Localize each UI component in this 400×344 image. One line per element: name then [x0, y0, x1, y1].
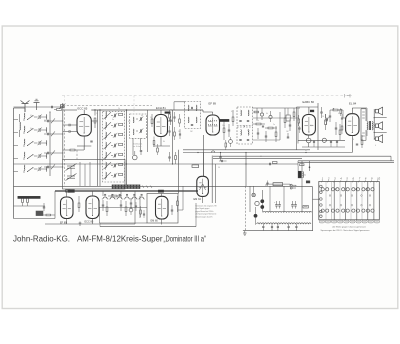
resistor R-top1 on bus	[57, 109, 62, 111]
mains transformer TR1 (dark core)	[298, 171, 301, 178]
resistor R-v4a	[325, 120, 327, 125]
coil L1 antenna input	[20, 122, 21, 130]
wire feed to top of IF1	[174, 101, 185, 103]
op tube V8 EM80 section tube	[156, 196, 169, 219]
wires in gang box	[79, 162, 81, 186]
resistor R-bl5	[125, 207, 127, 212]
svg-text:Gemessen mit umgesch. RV: Gemessen mit umgesch. RV	[195, 205, 217, 208]
svg-text:ECH 81: ECH 81	[156, 106, 166, 110]
mains plug symbol	[290, 184, 292, 186]
FM gang cluster 1 (trimmer + cap)	[47, 120, 49, 122]
ground dagger near V6	[79, 222, 81, 227]
coil pack stage 1	[105, 112, 108, 118]
svg-text:Spannungen bei 220 V~ Netz ohn: Spannungen bei 220 V~ Netz ohne Signal g…	[321, 229, 371, 232]
svg-text:EF 89: EF 89	[209, 101, 217, 105]
wire speaker out bottom	[374, 131, 387, 133]
op tube V2 ECH81	[154, 115, 167, 137]
wire dark bus y=191	[55, 190, 198, 192]
coil pack stage 4	[105, 142, 108, 148]
wire PSU risers	[269, 186, 271, 212]
resistor R-v8	[177, 201, 179, 206]
wire AVC bus y=152.5	[183, 152, 352, 154]
label box 220V	[300, 164, 304, 166]
shield box IF transformer 1 (dashed)	[185, 102, 201, 129]
V9 internal shade	[200, 184, 203, 190]
wire outer bottom run	[100, 226, 196, 228]
wire V4 top	[308, 107, 310, 115]
trimmer at gang top	[60, 105, 64, 108]
svg-text:5k: 5k	[30, 128, 32, 130]
dial lamp LP4 (filled)	[254, 214, 257, 217]
resistor R-under-V2b	[157, 148, 159, 152]
wire V6 V7 connections	[66, 191, 68, 197]
socket bottom contact circles	[321, 209, 324, 212]
capacitor C-det4	[287, 136, 289, 138]
capacitor C-det3	[289, 124, 291, 126]
op tube V4 EABC80	[302, 115, 315, 136]
svg-text:0,2: 0,2	[128, 121, 130, 123]
heater wiring scallop run 2	[257, 223, 312, 224]
resistor R-det5	[293, 112, 295, 117]
potentiometer P-bl	[129, 208, 133, 212]
IF1 primary coil	[187, 105, 190, 111]
speaker LS2	[375, 124, 378, 128]
svg-text:2k: 2k	[118, 108, 120, 110]
svg-text:5n: 5n	[297, 120, 299, 122]
op tube V5 EL84	[346, 114, 359, 136]
output transformer TR2	[367, 122, 368, 130]
resistor R-v4b	[333, 109, 338, 111]
capacitor C-top1 on bus	[51, 106, 53, 109]
wire V5 top anode	[351, 108, 353, 114]
capacitor C-v4b	[329, 115, 331, 117]
wire V1 output	[91, 120, 97, 122]
electrolytic capacitor bank 1	[275, 204, 278, 206]
shield box oscillator coils (dashed)	[130, 114, 147, 138]
svg-text:2n: 2n	[273, 124, 275, 126]
wire rail x=50	[49, 112, 51, 176]
socket top contact circles	[321, 188, 324, 191]
resistor R-v2a	[151, 119, 153, 124]
chassis boundary line right	[360, 109, 362, 141]
dial lamp LP2 (filled)	[261, 200, 264, 203]
wire bus y=158.3	[213, 157, 302, 159]
oscillator coil stage 1	[132, 117, 135, 123]
wire V2 to IF1	[168, 120, 173, 122]
svg-text:EL 84: EL 84	[349, 101, 357, 105]
wire bus y=110 middle	[91, 109, 203, 111]
FM gang cluster 2	[47, 133, 49, 135]
trimmer T-v45	[325, 114, 327, 118]
svg-text:50k: 50k	[256, 120, 259, 122]
svg-text:ohne Signal gegen: ohne Signal gegen	[195, 208, 209, 210]
enclosure box around V8	[147, 194, 178, 224]
ratio detector box	[286, 115, 290, 121]
svg-text:Abweichungen 10-15%: Abweichungen 10-15%	[195, 215, 213, 218]
wire NF run 2	[302, 146, 345, 148]
capacitor C-v5left	[341, 117, 343, 119]
wire NF run 1	[298, 139, 345, 141]
svg-text:0,5: 0,5	[338, 113, 340, 115]
wire bus y=156.2	[213, 155, 391, 157]
band switch tail marks	[142, 186, 144, 189]
capacitor C-det5	[262, 125, 264, 127]
dial lamp LP3 (filled)	[261, 205, 264, 208]
V3 grid combs	[208, 120, 210, 121]
wire dashed PSU rail	[244, 186, 246, 230]
svg-text:EABC 80: EABC 80	[303, 100, 315, 104]
resistor R-ps1 (top box)	[273, 183, 283, 186]
wire right of V8 box	[178, 150, 180, 194]
wire V3 down	[203, 135, 205, 176]
wire bus y=149.8	[183, 149, 310, 151]
capacitor C-v1b	[68, 130, 70, 133]
wire heavy bus y=186.3	[14, 185, 313, 187]
capacitor C-bl3	[120, 204, 122, 206]
coil pack stage 7	[105, 172, 108, 178]
component value labels (tiny)	[30, 108, 376, 169]
capacitor C-ps-top	[266, 182, 268, 184]
capacitor C-bl2	[102, 204, 104, 206]
op tube V9 EM34 magic eye	[197, 176, 209, 196]
label box 6.3V	[303, 206, 308, 209]
wire ferrite leads	[22, 203, 24, 207]
potentiometer P-osc	[133, 155, 138, 160]
capacitor C-bl5	[135, 205, 137, 207]
svg-text:0,1: 0,1	[305, 150, 307, 152]
label plate (dark) right of V2	[165, 112, 170, 114]
capacitor C-nf3	[336, 141, 338, 143]
band selector ladder row 2	[23, 126, 26, 131]
op tube V7 ECH81	[86, 196, 99, 219]
capacitor C-v3a	[228, 129, 230, 131]
wire runs lower mid	[102, 191, 104, 196]
svg-text:„Dominator III a“: „Dominator III a“	[164, 234, 207, 243]
winding dashes in box	[362, 111, 365, 113]
coil loop row under switch	[103, 197, 107, 199]
svg-text:3n: 3n	[112, 119, 114, 121]
coil pack stage 2	[105, 122, 108, 128]
wire bottom-left runs	[14, 218, 56, 220]
rectifier circle	[255, 201, 259, 205]
svg-text:8k: 8k	[163, 141, 165, 143]
FM gang cluster 3	[47, 152, 49, 154]
capacitor C-osc	[140, 150, 142, 152]
wire v1 bottom run	[77, 145, 91, 147]
wire mains runs	[295, 185, 297, 186]
resistor R-mid2	[179, 119, 181, 123]
ground symbol PSU	[244, 231, 246, 233]
band switch dark bar	[112, 185, 140, 189]
capacitor C-v8	[171, 209, 173, 211]
tuning gang box outline	[63, 160, 126, 190]
wire left rail	[13, 108, 15, 219]
svg-text:4: 4	[375, 145, 376, 147]
dial cord faint verticals	[64, 96, 66, 104]
resistor R-v5left	[341, 126, 343, 130]
decoupling caps under runs	[262, 224, 264, 226]
tuning linkage vertical dashes	[64, 106, 66, 186]
resistor R-mid1	[169, 114, 171, 118]
resistor R-mid4	[174, 132, 176, 136]
resistor R-hang2	[175, 156, 177, 160]
op tube V1 ECC85	[77, 115, 91, 137]
capacitor C-nf1	[313, 141, 315, 143]
shield box IF transformer 2 (dashed)	[237, 107, 253, 126]
svg-text:alle Werte gegen Chassis gemes: alle Werte gegen Chassis gemessen	[332, 225, 367, 228]
wire EM34 leads	[202, 196, 204, 203]
capacitor C-v1a	[68, 124, 70, 127]
label plate (dark) above V4 right	[310, 110, 314, 112]
svg-text:50: 50	[150, 117, 152, 119]
svg-text:EM 34: EM 34	[194, 198, 202, 201]
svg-text:gegen Masse bei 220V=: gegen Masse bei 220V=	[195, 211, 213, 213]
capacitor C-em top	[221, 160, 223, 162]
capacitor C-det2	[265, 135, 267, 137]
wire det verticals	[256, 108, 258, 120]
wire mains double bus	[298, 160, 394, 162]
label plate (dark) above V8	[158, 190, 163, 192]
svg-text:30: 30	[44, 120, 46, 122]
wire mains riser right	[312, 186, 314, 230]
svg-text:AM-FM-8/12Kreis-Super: AM-FM-8/12Kreis-Super	[77, 234, 163, 243]
component on bus (capacitor C-bus)	[269, 163, 271, 166]
resistor R-v1	[94, 118, 96, 123]
resistor R-det3	[275, 132, 277, 137]
speaker LS3	[375, 137, 378, 141]
electrolytic capacitor bank 2	[291, 204, 294, 206]
socket left column circles	[320, 185, 323, 188]
capacitor C-mid1	[173, 116, 175, 118]
band selector ladder row 5	[23, 165, 26, 170]
TR1 secondary winding	[303, 172, 304, 178]
cathode parts V5	[361, 140, 363, 145]
FM gang cluster 4	[47, 166, 49, 168]
resistor R-bl6	[140, 210, 142, 214]
svg-text:1n: 1n	[247, 130, 249, 132]
label box on bus	[192, 165, 199, 168]
lamp LP1 (crossed circle)	[252, 193, 255, 196]
socket diagram inner verticals	[333, 182, 335, 220]
variable capacitor VC1	[67, 165, 75, 167]
capacitor C-nf2	[330, 141, 332, 143]
heater wiring scallop run 1	[263, 211, 312, 212]
coil pack stage 6	[105, 162, 108, 168]
junction dot mains	[309, 166, 311, 168]
shield box AM coil pack (dashed)	[103, 111, 125, 182]
potentiometer P1 volume	[306, 138, 311, 143]
ferrite rod antenna	[18, 196, 40, 198]
coupling parts under V4	[335, 127, 337, 129]
svg-text:25: 25	[260, 156, 262, 158]
wire det cross runs	[253, 117, 298, 119]
wire osc rails	[132, 138, 134, 155]
wire V2 top	[160, 110, 162, 115]
IF1 secondary coil	[195, 105, 198, 111]
svg-text:2x: 2x	[304, 175, 306, 177]
capacitor C-hang1	[168, 156, 170, 158]
junction dot top mid	[333, 108, 334, 109]
resistor R-bl2	[78, 203, 80, 208]
resistor R-det4	[284, 118, 286, 123]
wire IF cans rail	[244, 126, 246, 128]
wire V1 anode to bus	[83, 110, 85, 115]
wire lower long run	[100, 222, 148, 224]
wire det bus y=108	[253, 107, 301, 109]
svg-text:50: 50	[218, 167, 220, 169]
dial pointer marks	[344, 94, 346, 98]
shield box IF transformer 3 (dashed)	[237, 127, 253, 144]
wire rail x=100	[99, 110, 101, 186]
tuning linkage dashed line	[63, 105, 152, 107]
resistor R-det6	[254, 111, 259, 113]
junction blob	[68, 190, 74, 193]
capacitor C-mid5	[179, 133, 181, 135]
oscillator coil stage 2	[132, 129, 135, 135]
band selector ladder row 4	[23, 152, 26, 157]
resistor R-v4left	[298, 119, 300, 123]
wire verticals to lower section	[203, 153, 205, 177]
socket tube name labels row	[319, 220, 324, 223]
resistor R-bl3	[106, 207, 108, 212]
wire V4 verticals	[296, 107, 298, 150]
wire speaker out top	[374, 117, 387, 119]
svg-text:5: 5	[362, 136, 363, 138]
resistor R-v3c	[225, 143, 227, 147]
resistor R-det2	[268, 127, 273, 129]
svg-text:EM 80: EM 80	[151, 220, 159, 223]
band selector ladder row 1 (coil, switch, trimmer C)	[23, 113, 26, 118]
speaker feed rail	[373, 109, 375, 140]
wire V3 top	[202, 110, 204, 112]
pointer bar (dark) right of V3	[220, 119, 230, 121]
capacitor C-v1c	[90, 140, 92, 142]
coil pack stage 5	[105, 152, 108, 158]
svg-text:0,3: 0,3	[310, 125, 312, 127]
wire to V5 grid	[342, 110, 344, 118]
coil can (dark) near V6	[36, 211, 43, 216]
band selector ladder row 3	[23, 139, 26, 144]
capacitor C-bl4	[130, 202, 132, 204]
dial cord faint dashed line	[62, 95, 352, 97]
potentiometer P2 tone	[322, 138, 326, 142]
resistor R-bl1	[46, 214, 51, 216]
svg-text:10n: 10n	[222, 125, 225, 127]
svg-text:m. 4-fach: m. 4-fach	[134, 146, 142, 148]
wire AVC bus y=164	[14, 163, 299, 165]
svg-text:0,1: 0,1	[30, 115, 32, 117]
socket small inner marks	[329, 195, 331, 197]
op tube V3 EF89	[206, 115, 220, 135]
wire PSU bottom bus	[243, 230, 313, 232]
speaker LS1	[375, 109, 378, 113]
svg-text:10: 10	[322, 116, 324, 118]
wire rail x=62.8 (FM gang)	[62, 103, 64, 160]
resistor R-under-V2a	[153, 141, 155, 145]
socket diagram outline	[319, 182, 380, 220]
svg-text:0,3: 0,3	[231, 111, 233, 113]
capacitor C-am det	[219, 156, 221, 158]
resistor R-v3a	[223, 128, 225, 133]
ferrite rod windings	[21, 199, 23, 203]
wire V8 connections	[161, 194, 163, 197]
resistor R-v1b	[70, 149, 75, 151]
svg-text:John-Radio-KG.: John-Radio-KG.	[13, 234, 70, 243]
svg-text:70: 70	[352, 139, 354, 141]
coil pack stage 3	[105, 132, 108, 138]
wire rail x=126.5	[126, 110, 128, 186]
variable capacitor VC2	[67, 175, 75, 177]
capacitor C-v2a	[169, 119, 171, 121]
wire PSU verticals	[249, 186, 251, 212]
wire V5 bottom	[351, 136, 353, 153]
IF1 lower coils	[187, 117, 190, 123]
capacitor C-bl6	[143, 213, 145, 215]
potentiometer P-v3	[229, 140, 233, 144]
wire crossover hop	[212, 151, 215, 153]
capacitor C-det1	[257, 132, 259, 134]
svg-text:1n: 1n	[96, 113, 98, 115]
diode D1	[260, 113, 263, 116]
svg-text:0,1: 0,1	[170, 110, 172, 112]
resistor R-det1	[256, 123, 261, 125]
resistor R-v3b	[232, 117, 234, 122]
capacitor C-v4a	[320, 111, 322, 113]
antenna A2 (AM)	[34, 99, 40, 110]
diode D2	[269, 115, 272, 118]
IF3 coils	[240, 130, 243, 136]
svg-text:40: 40	[141, 115, 143, 117]
wire top bus left	[14, 106, 63, 108]
op tube V6 EF89	[61, 197, 74, 219]
svg-text:alle Spannungen Richtwerte: alle Spannungen Richtwerte	[195, 213, 216, 216]
capacitor C-mid3	[168, 130, 170, 132]
switch blob (dark)	[306, 181, 310, 183]
wire V2 bottom	[160, 137, 162, 147]
antenna A1 (FM dipole)	[21, 101, 30, 113]
capacitor C-v4left	[298, 127, 300, 129]
svg-text:6k: 6k	[266, 113, 268, 115]
svg-text:ECC 85: ECC 85	[78, 106, 88, 110]
capacitor C-bl1	[43, 206, 45, 208]
components mid lower (R-bl4)	[112, 195, 117, 197]
resistor R-top2	[340, 110, 342, 114]
IF2 coils	[240, 110, 243, 116]
junction box on dark line	[66, 190, 71, 192]
